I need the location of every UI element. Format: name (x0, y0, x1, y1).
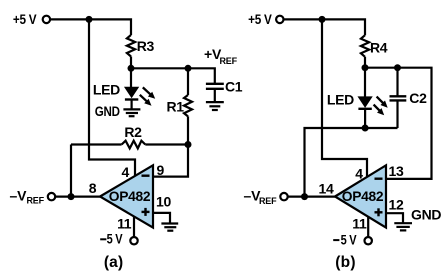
svg-text:10: 10 (156, 194, 171, 210)
wire R3 bottom to LED anode (a) (130, 57, 132, 88)
svg-text:9: 9 (157, 162, 165, 178)
svg-text:GND: GND (95, 103, 120, 119)
wire pin 11 to -5V (a) (133, 216, 135, 237)
node -5V terminal (a) (100, 231, 138, 247)
junction R4/LED/C2 (b) (362, 64, 369, 71)
svg-text:+5 V: +5 V (248, 11, 272, 27)
wire +5V rail down to pin 4 (a) (89, 18, 135, 177)
node -VREF terminal (a) (10, 188, 56, 206)
LED D2 (b) (327, 91, 372, 128)
node +5V terminal (b) (248, 11, 283, 27)
svg-text:12: 12 (389, 197, 404, 213)
svg-text:13: 13 (389, 163, 404, 179)
svg-text:C1: C1 (225, 78, 243, 94)
wire R1 top lead (187, 68, 189, 95)
svg-text:11: 11 (117, 215, 132, 231)
svg-text:4: 4 (122, 164, 130, 180)
wire +5V to R3 top (a) (50, 19, 131, 35)
op-amp U1 OP482 (a) (100, 165, 153, 227)
capacitor C1 (206, 78, 243, 102)
wire +5V rail down to pin 4 (b) (322, 18, 367, 177)
svg-text:REF: REF (220, 56, 238, 66)
svg-text:LED: LED (327, 91, 354, 107)
wire pin 11 to -5V (b) (367, 217, 369, 238)
ground at pin 12 (b) with GND label (394, 207, 441, 231)
LED light arrows (a) (140, 87, 155, 105)
svg-text:(a): (a) (104, 254, 124, 271)
svg-text:5 V: 5 V (107, 231, 124, 247)
wire R4 bottom to LED anode (b) (364, 57, 366, 98)
LED D1 (a) (93, 81, 138, 109)
wire pin 12 to ground (b) (386, 213, 403, 223)
junction LED cathode (b) (362, 125, 369, 132)
wire R2 leads (71, 143, 122, 145)
junction output node (b) (301, 193, 308, 200)
ground at pin 10 (a) (161, 224, 178, 231)
svg-text:14: 14 (319, 181, 334, 197)
wire R2 feedback down to output node (a) (70, 145, 72, 197)
node -5V terminal (b) (333, 231, 372, 247)
svg-text:REF: REF (259, 196, 277, 206)
wire R1 bottom to pin 9 corner (153, 116, 188, 176)
svg-text:8: 8 (89, 180, 97, 196)
junction R1 top (a) (185, 65, 192, 72)
resistor R2 (122, 124, 146, 148)
wire junction to +VREF corner (a) (131, 68, 215, 84)
svg-text:–V: –V (10, 188, 28, 204)
svg-text:LED: LED (93, 81, 120, 97)
resistor R1 (167, 95, 193, 116)
node -VREF terminal (b) (244, 187, 288, 205)
svg-text:11: 11 (352, 215, 367, 231)
resistor R3 (127, 35, 155, 57)
wire junction to right rail (b) (365, 68, 432, 179)
capacitor C2 (390, 68, 428, 128)
svg-text:R1: R1 (167, 98, 185, 114)
svg-text:OP482: OP482 (109, 188, 151, 204)
node +VREF label (204, 46, 238, 66)
junction R2/R1 node (a) (185, 141, 192, 148)
svg-text:5 V: 5 V (341, 231, 358, 247)
junction output node (a) (68, 193, 75, 200)
svg-text:OP482: OP482 (342, 188, 384, 204)
node +5V terminal (a) (13, 11, 50, 27)
wire output to -VREF (b) (287, 196, 335, 198)
junction C2 top (b) (394, 64, 401, 71)
resistor R4 (361, 35, 388, 57)
svg-text:R4: R4 (370, 39, 388, 55)
svg-text:C2: C2 (409, 90, 427, 106)
wire output to -VREF (a) (55, 196, 100, 198)
ground below C1 (206, 102, 224, 110)
wire LED cathode to output node (b) (305, 128, 398, 197)
ground below LED (a) with GND label (95, 103, 141, 119)
junction R3/LED/R1 (a) (128, 65, 135, 72)
op-amp U2 OP482 (b) (335, 165, 386, 227)
wire pin 10 to ground (a) (153, 213, 170, 224)
junction +5V rail (b) (319, 16, 326, 23)
svg-text:GND: GND (411, 207, 441, 223)
svg-text:4: 4 (355, 165, 363, 181)
junction +5V rail (a) (86, 16, 93, 23)
wire +5V to R4 top (b) (283, 19, 365, 35)
svg-text:R2: R2 (124, 124, 142, 140)
svg-text:+5 V: +5 V (13, 11, 37, 27)
LED light arrows (b) (374, 97, 388, 116)
svg-text:R3: R3 (137, 38, 155, 54)
svg-text:REF: REF (27, 196, 45, 206)
svg-text:(b): (b) (335, 254, 355, 271)
